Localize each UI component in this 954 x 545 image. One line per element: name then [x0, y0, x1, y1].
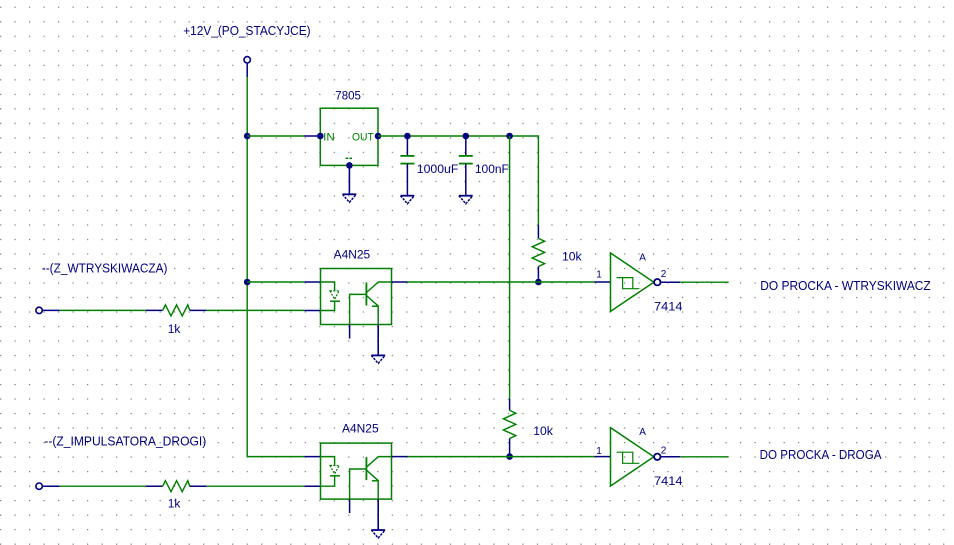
- svg-text:10k: 10k: [533, 424, 553, 438]
- ground: C1: [401, 196, 415, 204]
- capacitor C2 100nF: [459, 136, 509, 196]
- resistor R4 1k: [146, 481, 207, 511]
- svg-text:A: A: [639, 252, 646, 263]
- node: junction at C2: [463, 133, 470, 140]
- label DO PROCKA - DROGA: [760, 448, 882, 462]
- node: junction +12V bus / opto1 anode: [244, 279, 251, 286]
- capacitor C1 1000uF: [400, 136, 458, 196]
- svg-text:--(Z_WTRYSKIWACZA): --(Z_WTRYSKIWACZA): [42, 262, 168, 276]
- wire: opto1 collector to inverter: [408, 281, 595, 283]
- ground: opto1 emitter: [371, 355, 385, 363]
- svg-text:1: 1: [596, 270, 602, 281]
- svg-text:7414: 7414: [654, 474, 683, 488]
- net label (Z_WTRYSKIWACZA): [42, 262, 168, 276]
- svg-text:1: 1: [596, 446, 602, 457]
- wire: R3 to opto1 cathode: [207, 309, 305, 311]
- regulator U1 7805: [304, 90, 381, 194]
- svg-text:OUT: OUT: [352, 131, 374, 143]
- svg-text:1k: 1k: [168, 322, 181, 336]
- svg-text:1k: 1k: [168, 497, 181, 511]
- wire: terminal to R4: [60, 485, 146, 487]
- wire: 5V drop to channel 2: [509, 136, 511, 399]
- svg-text:--(Z_IMPULSATORA_DROGI): --(Z_IMPULSATORA_DROGI): [44, 434, 206, 448]
- svg-text:DO PROCKA - DROGA: DO PROCKA - DROGA: [760, 448, 882, 462]
- terminal P1 (+12V input): [244, 57, 250, 77]
- resistor R1 10k (pull-up ch1): [532, 225, 582, 282]
- node: junction 5V rail to second channel: [506, 133, 513, 140]
- svg-text:+12V_(PO_STACYJCE): +12V_(PO_STACYJCE): [183, 24, 310, 38]
- wire: 7805 OUT rail: [378, 136, 538, 225]
- svg-text:IN: IN: [323, 131, 335, 143]
- node: junction R2 / opto2 collector: [506, 453, 513, 460]
- svg-text:1000uF: 1000uF: [417, 162, 459, 176]
- svg-text:A: A: [639, 427, 646, 438]
- optocoupler U2 A4N25: [304, 247, 407, 355]
- wire: +12V vertical main bus: [246, 77, 248, 457]
- svg-text:7805: 7805: [335, 90, 361, 102]
- svg-text:2: 2: [661, 269, 667, 280]
- resistor R2 10k (pull-up ch2): [503, 399, 553, 457]
- wire: inverter1 output: [680, 281, 729, 283]
- ground: opto2 emitter: [371, 530, 385, 538]
- svg-text:A4N25: A4N25: [334, 247, 371, 261]
- wire: +12V bus corner to opto2 anode: [247, 456, 304, 458]
- wire: inverter2 output: [680, 456, 729, 458]
- terminal P2 (injector input): [36, 307, 60, 313]
- svg-text:7414: 7414: [654, 299, 683, 313]
- net label (Z_IMPULSATORA_DROGI): [44, 434, 206, 448]
- svg-text:A4N25: A4N25: [342, 422, 379, 436]
- wire: to 7805 IN: [247, 135, 304, 137]
- power net label +12V_(PO_STACYJCE): [183, 24, 310, 38]
- terminal P3 (distance pulse input): [36, 483, 60, 489]
- ground: 7805 GND: [343, 194, 357, 202]
- ground: C2: [459, 196, 473, 204]
- inverter U5A 7414: [595, 427, 683, 488]
- inverter U3A 7414: [595, 252, 683, 313]
- label DO PROCKA - WTRYSKIWACZ: [760, 279, 931, 293]
- svg-text:DO PROCKA - WTRYSKIWACZ: DO PROCKA - WTRYSKIWACZ: [760, 279, 931, 293]
- node: junction at +12V / 7805 IN wire: [244, 133, 251, 140]
- wire: terminal to R3: [60, 309, 146, 311]
- optocoupler U4 A4N25: [304, 422, 407, 530]
- wire: opto2 collector to inverter: [408, 456, 595, 458]
- node: junction at C1: [404, 133, 411, 140]
- svg-text:100nF: 100nF: [475, 162, 509, 176]
- svg-text:2: 2: [661, 445, 667, 456]
- resistor R3 1k: [146, 305, 207, 336]
- wire: to opto1 anode: [247, 281, 304, 283]
- node: junction R1 / opto1 collector: [535, 279, 542, 286]
- svg-text:10k: 10k: [562, 249, 582, 263]
- wire: R4 to opto2 cathode: [207, 485, 305, 487]
